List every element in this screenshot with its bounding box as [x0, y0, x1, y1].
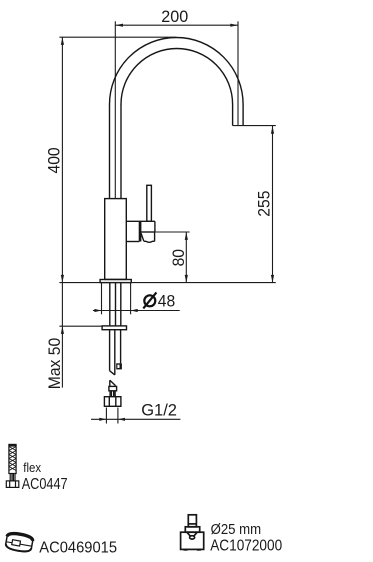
svg-text:48: 48 — [158, 292, 175, 310]
svg-text:255: 255 — [255, 191, 273, 217]
svg-text:80: 80 — [170, 249, 188, 266]
svg-text:200: 200 — [161, 8, 188, 26]
svg-text:AC0447: AC0447 — [22, 476, 68, 493]
svg-text:400: 400 — [45, 147, 63, 173]
svg-text:flex: flex — [23, 460, 41, 475]
svg-text:AC0469015: AC0469015 — [39, 539, 117, 556]
svg-text:G1/2: G1/2 — [141, 401, 177, 419]
svg-text:Ø25 mm: Ø25 mm — [211, 520, 262, 537]
svg-text:Max 50: Max 50 — [46, 338, 64, 389]
svg-text:AC1072000: AC1072000 — [210, 538, 282, 555]
